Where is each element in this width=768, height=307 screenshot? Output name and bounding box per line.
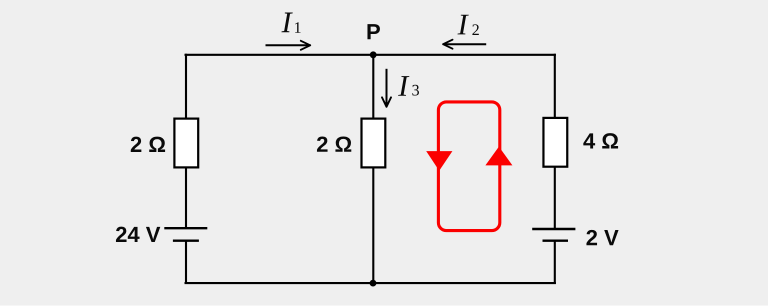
resistor 2 ohm (middle branch) [362, 119, 386, 168]
label I3 [398, 76, 419, 96]
battery 2 V: short (negative) plate [543, 239, 569, 241]
battery 2 V: long (positive) plate [532, 228, 575, 230]
wire: right branch between resistor and battery [554, 167, 556, 229]
red loop arrowhead (left side, pointing down) [426, 151, 452, 171]
wire: bottom rail from left branch to right branch [185, 282, 556, 284]
wire: middle branch upper segment [372, 55, 374, 119]
wire: right branch lower segment [554, 241, 556, 284]
junction dot (middle branch meets bottom rail) [370, 280, 377, 287]
label I1 [281, 13, 300, 33]
current arrow I2 (leftward, above top rail) [443, 40, 486, 49]
node P (junction dot on top rail) [370, 51, 377, 58]
wire: left branch upper segment [185, 54, 187, 119]
battery 24 V: short (negative) plate [173, 239, 199, 241]
current arrow I3 (downward, on middle branch below node P) [382, 69, 391, 107]
wire: middle branch lower segment [372, 168, 374, 283]
label 2 Ω (left resistor value) [131, 137, 165, 152]
resistor 2 ohm (left branch) [174, 119, 198, 168]
wire: right branch upper segment [554, 54, 556, 118]
current arrow I1 (rightward, above top rail) [266, 41, 311, 50]
label 4 Ω (right resistor value) [583, 133, 618, 148]
label 2 Ω (middle resistor value) [317, 136, 351, 151]
label 24 V (battery value) [116, 227, 160, 242]
resistor 4 ohm (right branch) [543, 118, 567, 167]
red loop arrowhead (right side, pointing up) [485, 147, 512, 166]
label P (node name) [367, 24, 379, 39]
label I2 [457, 15, 478, 35]
battery 24 V: long (positive) plate [164, 227, 207, 229]
label 2 V (battery value) [586, 230, 618, 245]
wire: left branch between resistor and battery [185, 168, 187, 229]
red mesh-current loop (rounded rectangle, counterclockwise) [438, 102, 499, 231]
wire: left branch lower segment [185, 241, 187, 284]
wire: top rail from left branch to right branch [185, 54, 556, 56]
